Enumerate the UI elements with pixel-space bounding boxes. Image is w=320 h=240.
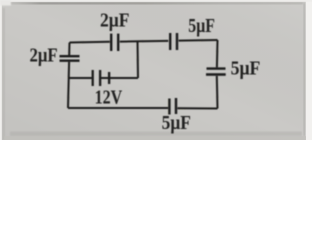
svg-text:2μF: 2μF [30, 45, 58, 67]
left shadow band [3, 8, 5, 140]
bottom strip [4, 136, 306, 140]
wire battery right lead [110, 77, 138, 79]
white top strip [0, 0, 312, 2]
wire top segment C [179, 39, 218, 42]
capacitor C4 5uF bottom plates [169, 98, 176, 115]
white margin right edge [306, 0, 312, 140]
battery B1 plate 1 [92, 70, 94, 86]
svg-text:5μF: 5μF [188, 15, 215, 37]
capacitor C3 2uF left plates [60, 56, 80, 61]
right border line [304, 3, 306, 136]
wire bottom left segment [68, 107, 168, 109]
capacitor C5 5uF right plates [206, 69, 226, 75]
wire left upper [68, 43, 70, 56]
capacitor C2 5uF top plates [170, 33, 177, 50]
wire battery inner link [101, 77, 108, 79]
bottom shadow band [10, 132, 302, 137]
wire battery left lead [69, 77, 92, 79]
wire middle vertical [137, 41, 140, 78]
wire top segment B [120, 40, 169, 43]
top border line [11, 3, 303, 5]
paper background [0, 0, 312, 140]
wire right upper [216, 40, 219, 67]
wire right lower [216, 76, 219, 109]
white margin left edge [0, 0, 2, 140]
svg-text:5μF: 5μF [162, 112, 191, 134]
battery B1 plate 2 [99, 70, 101, 86]
svg-text:5μF: 5μF [231, 57, 261, 79]
svg-text:12V: 12V [95, 87, 123, 109]
battery B1 plate 3 [108, 72, 110, 84]
wire top segment A [70, 41, 110, 44]
white corner top-left patch [0, 0, 11, 6]
lighting overlay [0, 0, 312, 140]
capacitor C1 2uF top plates [111, 34, 118, 51]
svg-text:2μF: 2μF [100, 10, 130, 32]
wire left lower [68, 62, 69, 108]
wire bottom right segment [177, 107, 217, 109]
